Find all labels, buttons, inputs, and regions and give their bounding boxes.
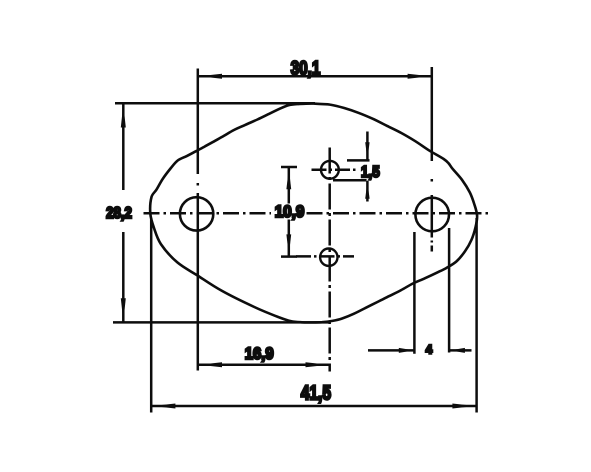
dim 4 left arrow line — [368, 349, 414, 352]
horizontal center line left part — [144, 212, 272, 215]
extension line through right hole (upper) — [431, 67, 434, 161]
dimension line 10,9 upper part — [288, 167, 291, 204]
vertical pin axis center line — [328, 148, 331, 372]
dim 1,5 upper arrow line — [366, 132, 369, 161]
svg-text:16,9: 16,9 — [245, 345, 274, 363]
right mounting hole — [415, 198, 449, 232]
right extension line of dim 4 — [448, 228, 451, 353]
top tick of 10,9 — [281, 166, 297, 169]
flange outline — [150, 104, 477, 323]
bottom tick of 10,9 — [281, 255, 297, 258]
left extension line 41.5 — [150, 218, 153, 413]
dimension line 28,2 lower part — [122, 232, 125, 322]
dimension line 16,9 — [198, 364, 330, 367]
dimension line 41,5 — [151, 405, 476, 408]
bottom extension line 28.2 — [113, 321, 329, 324]
dimension line 28,2 upper part — [122, 103, 125, 190]
left extension line of dim 4 — [413, 232, 416, 354]
dimension line 30,1 — [198, 75, 432, 78]
svg-text:41,5: 41,5 — [301, 383, 331, 405]
right extension line 41.5 — [475, 218, 478, 413]
horizontal center line right part — [307, 212, 489, 215]
dim 4 right arrow line — [450, 349, 472, 352]
extension line through left hole (lower) — [197, 193, 200, 371]
dimension line 10,9 lower part — [288, 220, 291, 257]
dim 1,5 lower arrow line — [366, 181, 369, 202]
center line dot above right hole — [431, 179, 434, 182]
top extension line 28.2 — [115, 102, 315, 105]
svg-text:1,5: 1,5 — [361, 164, 380, 181]
extension line through left hole (upper) — [197, 69, 200, 175]
left mounting hole — [180, 197, 213, 230]
dim 1,5 lower tick — [333, 179, 367, 182]
svg-text:28,2: 28,2 — [106, 205, 132, 222]
dim 1,5 upper tick — [347, 159, 370, 162]
svg-text:30,1: 30,1 — [291, 58, 321, 80]
extension line through right hole (lower) — [431, 195, 434, 232]
top pin hole horizontal center line — [312, 169, 359, 172]
svg-text:4: 4 — [426, 345, 433, 357]
top pin hole — [321, 161, 339, 179]
center line stub below right hole — [431, 232, 434, 255]
svg-text:10,9: 10,9 — [275, 203, 305, 221]
bottom pin hole horizontal center line — [296, 255, 354, 258]
bottom pin hole — [320, 249, 337, 266]
center line dot above left hole — [197, 183, 200, 186]
